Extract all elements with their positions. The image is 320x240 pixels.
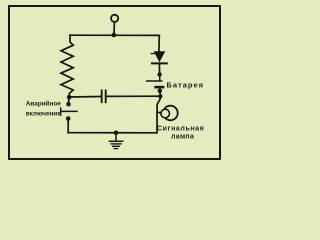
label: Сигнальная лампа (lamp HL1 label) (157, 126, 204, 141)
switch SB1 (pushbutton, emergency on) (61, 102, 77, 121)
svg-text:Батарея: Батарея (167, 80, 205, 89)
wire (resistor bottom node to switch top contact) (68, 97, 70, 102)
terminal X1 (top input terminal) (111, 15, 118, 35)
svg-text:включение: включение (26, 111, 62, 118)
node E (junction below battery) (158, 89, 162, 93)
battery GB1 (long and short plates) (147, 74, 163, 90)
capacitor C1 (coupling capacitor in middle wire) (69, 91, 160, 103)
svg-text:Сигнальная: Сигнальная (157, 126, 204, 133)
resistor R1 (left branch zigzag) (61, 35, 73, 97)
wire (battery down to capacitor node) (159, 91, 161, 96)
node F (junction of capacitor wire with right branch) (158, 94, 162, 98)
ground (chassis ground symbol) (110, 133, 123, 149)
wire (stub to signal lamp) (157, 112, 161, 114)
node D (junction above battery) (157, 72, 161, 76)
wire (switch bottom contact down to bottom wire) (67, 121, 69, 133)
wire (top horizontal wire) (70, 34, 159, 36)
lamp HL1 (signal lamp, two circles) (161, 106, 178, 121)
node B (junction of resistor bottom with capacitor wire) (67, 95, 72, 100)
svg-text:лампа: лампа (171, 134, 194, 141)
wire (right branch jog down to bottom wire) (157, 96, 160, 133)
node A (junction of terminal with top wire) (112, 33, 117, 38)
diode VD1 (cathode down) (151, 52, 167, 64)
wire (bottom horizontal wire) (68, 132, 157, 134)
label: Аварийное включение (switch SB1 label) (26, 100, 62, 118)
wire (right branch, top corner down to diode) (158, 35, 160, 51)
wire (diode cathode to battery) (158, 63, 160, 74)
svg-text:Аварийное: Аварийное (26, 100, 62, 108)
node C (ground junction on bottom wire) (114, 131, 119, 136)
